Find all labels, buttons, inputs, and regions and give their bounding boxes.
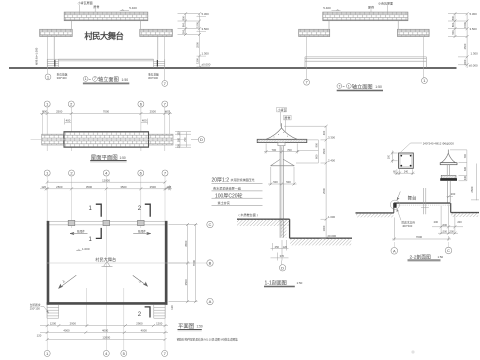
svg-text:2500: 2500 <box>470 186 474 192</box>
far right chain 2500 <box>471 164 479 201</box>
svg-text:4000: 4000 <box>63 329 70 333</box>
svg-text:±0.000: ±0.000 <box>202 62 211 66</box>
bottom dims 60/240 <box>394 169 415 175</box>
svg-text:700: 700 <box>464 154 467 159</box>
leader: 小青瓦屋面 <box>78 0 138 12</box>
svg-text:400: 400 <box>42 110 47 114</box>
svg-text:钢筋砼构件配筋见结施 M1:10见详图 M5做法详图集: 钢筋砼构件配筋见结施 M1:10见详图 M5做法详图集 <box>177 338 238 342</box>
column shaft (double line) <box>279 146 281 238</box>
svg-text:舞台: 舞台 <box>408 194 417 201</box>
svg-text:5.400: 5.400 <box>323 6 331 10</box>
parapet band right (side wing) <box>140 29 173 36</box>
svg-text:2500: 2500 <box>56 185 63 189</box>
svg-text:7000: 7000 <box>192 259 196 266</box>
ridge finial <box>281 123 283 128</box>
parapet band right wing <box>398 29 430 36</box>
stub columns joining roof band to wings <box>70 21 72 30</box>
svg-text:预埋件: 预埋件 <box>77 229 85 233</box>
svg-text:600: 600 <box>315 154 319 159</box>
entry arrow left (below beam) <box>70 232 88 234</box>
roof cap cone <box>266 128 297 139</box>
inside steps bottom-right <box>154 305 165 319</box>
dim 500/500 at collar <box>268 167 297 185</box>
svg-text:700: 700 <box>287 148 292 152</box>
grid bubble A <box>393 242 395 247</box>
section mark 2 (bottom) <box>138 307 150 318</box>
right dimension chain of roof plan <box>175 132 191 148</box>
column cross-section square <box>399 153 414 168</box>
svg-text:4000: 4000 <box>102 329 109 333</box>
overall top dimension 12000 <box>47 181 165 183</box>
svg-text:2500: 2500 <box>150 110 157 114</box>
top dimension line of roof plan <box>40 113 172 115</box>
svg-text:700: 700 <box>271 148 276 152</box>
svg-text:1500: 1500 <box>195 22 199 28</box>
stage platform (double top line) <box>59 58 154 60</box>
svg-text:3500: 3500 <box>120 185 127 189</box>
upper column stub <box>446 165 448 176</box>
right side dimensions of plan <box>169 225 198 302</box>
svg-text:2.400: 2.400 <box>328 159 335 163</box>
grid line 1 (left column axis) <box>47 37 49 74</box>
parapet band left (side wing) <box>40 29 72 36</box>
svg-text:120: 120 <box>37 334 42 338</box>
footing dims 250/120 <box>271 240 289 261</box>
roof band (hatched parapet, elevation 7-1) <box>323 12 408 21</box>
stage platform rectangle (rear view) <box>305 57 426 68</box>
svg-text:250: 250 <box>275 245 280 249</box>
right dimension chain of elevation 2 <box>448 14 467 68</box>
svg-text:200: 200 <box>451 192 456 196</box>
svg-text:500: 500 <box>273 180 278 184</box>
svg-text:500: 500 <box>178 137 181 142</box>
grid bubble C <box>207 221 213 227</box>
svg-text:600: 600 <box>464 166 467 171</box>
svg-text:5.400: 5.400 <box>129 6 137 10</box>
level flag 5.400 (left) <box>323 1 393 13</box>
svg-text:3500: 3500 <box>184 240 188 247</box>
grid bubble D with leader <box>191 139 198 141</box>
svg-text:800: 800 <box>181 22 185 27</box>
svg-text:1.300: 1.300 <box>202 52 210 56</box>
svg-text:400: 400 <box>322 130 326 135</box>
svg-text:500: 500 <box>286 180 291 184</box>
svg-text:300: 300 <box>464 175 467 180</box>
foundation note left column <box>57 73 159 80</box>
grid line 7 (left) <box>306 37 308 80</box>
top grid bubbles (floor plan) <box>44 170 168 176</box>
svg-text:M99.6±=1.000: M99.6±=1.000 <box>35 47 39 65</box>
svg-text:1:50: 1:50 <box>120 156 126 160</box>
svg-text:1200: 1200 <box>50 322 57 326</box>
section mark 1 (below beam) <box>89 228 102 243</box>
stage floor slab line <box>394 202 451 204</box>
svg-text:1.300: 1.300 <box>471 52 479 56</box>
boxed leader label 屋脊 <box>284 115 292 120</box>
svg-text:1:50: 1:50 <box>197 325 203 329</box>
svg-text:A: A <box>393 248 396 253</box>
svg-text:小青瓦屋面: 小青瓦屋面 <box>378 1 393 6</box>
svg-text:300*400: 300*400 <box>57 76 68 80</box>
svg-text:400: 400 <box>142 119 147 123</box>
svg-text:D: D <box>200 137 203 142</box>
svg-text:120: 120 <box>283 245 288 249</box>
svg-text:1:50: 1:50 <box>438 255 444 259</box>
parapet band left wing <box>299 29 330 36</box>
svg-text:3.500: 3.500 <box>470 27 478 31</box>
svg-text:±0.000: ±0.000 <box>469 64 478 68</box>
outer right dim chain with levels <box>284 126 326 238</box>
inner right dim chain (900/600) <box>296 140 318 163</box>
svg-text:7: 7 <box>338 84 340 88</box>
right wall <box>165 221 168 305</box>
svg-text:2900: 2900 <box>70 322 77 326</box>
svg-text:2500: 2500 <box>195 42 199 48</box>
svg-text:600: 600 <box>443 223 448 227</box>
dim 700/700 under cap <box>264 144 299 154</box>
svg-text:300*400: 300*400 <box>148 76 159 80</box>
svg-text:20厚1:2: 20厚1:2 <box>212 177 230 183</box>
stub columns joining band to wings <box>328 21 330 30</box>
cap finial <box>447 150 449 155</box>
left dim 100 <box>391 151 398 164</box>
grid bubble 7 <box>304 79 310 85</box>
svg-text:村民大舞台: 村民大舞台 <box>95 256 116 263</box>
svg-text:7000: 7000 <box>103 110 110 114</box>
horizontal grid line B through plan <box>46 262 207 264</box>
grade line (+-0.000) with earth hatch <box>290 237 352 239</box>
svg-text:500: 500 <box>181 29 185 34</box>
stage front edge beam (solid) with detail circle <box>393 203 396 208</box>
roof band cut (hatched) <box>441 175 456 178</box>
roof band (top hatched parapet, elevation 1-7) <box>64 12 148 21</box>
svg-text:500: 500 <box>451 30 455 35</box>
svg-text:C: C <box>447 248 450 253</box>
grid line 7 (right column axis) <box>164 37 166 81</box>
svg-text:轴立面图: 轴立面图 <box>98 75 119 83</box>
right steps block <box>154 59 165 68</box>
grid bubble 1 <box>422 78 428 84</box>
svg-text:青水泥浆结合层一遍: 青水泥浆结合层一遍 <box>213 185 241 190</box>
svg-text:200: 200 <box>167 185 171 190</box>
faint print artifact <box>411 350 414 353</box>
grid bubbles row (roof plan) <box>44 101 168 107</box>
bottom wall <box>47 302 168 305</box>
ground line (shared grade line across both elevations) <box>9 67 457 69</box>
sub dimension 400 left <box>65 122 72 124</box>
svg-text:5.300: 5.300 <box>202 12 210 16</box>
svg-text:2500: 2500 <box>56 110 63 114</box>
leader + note 防腐木龙骨 <box>397 209 401 221</box>
svg-text:屋脊: 屋脊 <box>284 115 290 120</box>
svg-text:2500: 2500 <box>322 188 326 194</box>
svg-text:3500: 3500 <box>86 185 93 189</box>
svg-text:D: D <box>281 265 284 270</box>
svg-text:100: 100 <box>178 131 181 136</box>
svg-text:1200: 1200 <box>156 322 163 326</box>
svg-text:800: 800 <box>181 15 185 20</box>
svg-text:120: 120 <box>41 185 46 189</box>
stage ground (1.000 level) with earth hatch <box>237 218 290 220</box>
grid line 1 (right) <box>423 37 425 78</box>
svg-text:200: 200 <box>434 220 439 224</box>
svg-text:平面图: 平面图 <box>178 322 194 330</box>
bottom dimension row 4000/4000/4000 <box>40 331 168 333</box>
svg-text:2900: 2900 <box>136 322 143 326</box>
lower column <box>446 181 448 203</box>
level flag 1.000 <box>76 247 90 251</box>
svg-text:1: 1 <box>348 84 350 88</box>
svg-text:村民大舞台: 村民大舞台 <box>84 31 124 41</box>
svg-text:台阶踏步: 台阶踏步 <box>30 303 41 307</box>
svg-text:小青瓦屋面: 小青瓦屋面 <box>78 0 93 5</box>
top beam (double line) <box>47 220 168 222</box>
roof outer strip (hatched) <box>42 134 173 145</box>
drawing title 7-1轴立面图 <box>337 82 383 91</box>
pedestal under slab <box>278 143 285 146</box>
bottom overall dimension 12000 <box>47 339 165 341</box>
right dimension chain of elevation 1 <box>178 14 200 68</box>
left outside grade line <box>356 212 394 214</box>
svg-text:700: 700 <box>184 137 187 142</box>
cap slab (hatched) <box>257 139 307 142</box>
bottom dimension row 1200/2900/2900/1200 <box>40 325 168 327</box>
right chain at cap <box>450 150 467 181</box>
cap cone <box>441 153 455 162</box>
svg-text:1:50: 1:50 <box>375 85 382 89</box>
svg-text:2500: 2500 <box>150 185 157 189</box>
svg-text:B: B <box>209 261 212 266</box>
diagonal arrow bottom-left (up direction) <box>59 275 77 288</box>
grid bubble A <box>207 298 213 304</box>
grid bubble C <box>448 242 450 247</box>
svg-text:7: 7 <box>94 77 96 81</box>
svg-text:±0.000: ±0.000 <box>328 234 337 238</box>
svg-text:100: 100 <box>178 144 181 149</box>
svg-text:防腐木龙骨: 防腐木龙骨 <box>402 220 416 224</box>
sub dimension 400 right <box>141 122 148 124</box>
columns on beam <box>68 220 144 225</box>
grid bubble 7 <box>162 81 168 87</box>
bottom grid bubbles <box>44 350 168 356</box>
svg-text:( 木质舞台面 ): ( 木质舞台面 ) <box>239 212 258 217</box>
section mark 1 (top) <box>89 204 102 217</box>
svg-text:250*150: 250*150 <box>30 307 41 311</box>
svg-text:屋脊: 屋脊 <box>93 4 99 9</box>
svg-text:A: A <box>209 299 212 304</box>
svg-text:轴立面图: 轴立面图 <box>352 82 373 90</box>
mid support post <box>423 188 425 214</box>
svg-text:4000: 4000 <box>141 329 148 333</box>
left wall <box>47 221 50 305</box>
svg-text:1000: 1000 <box>463 59 467 65</box>
svg-text:1500: 1500 <box>322 148 326 154</box>
grid extension lines <box>43 107 170 151</box>
grid bubble D below section <box>281 261 283 265</box>
bottom-right dim cluster <box>432 205 463 235</box>
svg-text:屋脊: 屋脊 <box>368 5 374 10</box>
svg-text:1300: 1300 <box>195 58 199 64</box>
leader arrow from above to edge <box>397 192 401 201</box>
svg-text:200: 200 <box>457 220 462 224</box>
collar flare <box>271 159 294 165</box>
drawing title 1-7轴立面图 <box>83 75 129 84</box>
svg-text:400: 400 <box>66 119 71 123</box>
right step down and grade <box>450 203 452 213</box>
svg-text:2-2剖面图: 2-2剖面图 <box>410 253 432 260</box>
diagonal arrow bottom-right (up direction) <box>133 275 148 286</box>
right column edge <box>157 37 159 60</box>
svg-text:800: 800 <box>451 15 455 20</box>
left column edge <box>53 37 55 60</box>
top dimension row 400/2500/3500/3500/2500/400 <box>40 188 172 190</box>
svg-text:小青瓦: 小青瓦 <box>278 107 287 112</box>
beam (solid) <box>440 178 457 181</box>
svg-text:1-1剖面图: 1-1剖面图 <box>265 280 287 287</box>
svg-text:800: 800 <box>451 22 455 27</box>
section mark 2 (top) <box>138 204 150 217</box>
svg-text:C: C <box>209 222 212 227</box>
svg-text:1:50: 1:50 <box>122 78 129 82</box>
svg-text:7000: 7000 <box>416 235 423 239</box>
svg-text:1:50: 1:50 <box>297 281 303 285</box>
svg-text:预埋件: 预埋件 <box>138 229 146 233</box>
svg-text:3.500: 3.500 <box>202 27 210 31</box>
cap slab bar <box>440 163 457 165</box>
rebar dots <box>400 155 411 167</box>
svg-text:1000: 1000 <box>322 225 326 231</box>
roof centre block (hatched, heavier border) <box>64 132 149 148</box>
entry arrow right (below beam) <box>133 232 151 234</box>
svg-text:240: 240 <box>404 170 409 173</box>
boxed leader label 小青瓦 <box>277 107 287 112</box>
svg-text:素土夯实: 素土夯实 <box>218 200 230 205</box>
outside steps bottom-left <box>47 305 59 319</box>
grid bubble 1 <box>45 74 51 80</box>
svg-text:3500: 3500 <box>184 279 188 286</box>
buried column hatch <box>281 219 286 238</box>
left steps block <box>47 59 58 68</box>
svg-text:12000: 12000 <box>102 336 110 340</box>
svg-text:240*240 4Φ12 Φ6@200: 240*240 4Φ12 Φ6@200 <box>423 141 455 145</box>
bottom dim 7000 <box>392 218 451 241</box>
svg-text:200: 200 <box>450 229 455 233</box>
svg-text:400*400: 400*400 <box>402 224 413 228</box>
svg-text:1.000: 1.000 <box>82 247 90 251</box>
svg-text:100: 100 <box>387 154 390 159</box>
svg-text:1: 1 <box>85 77 87 81</box>
svg-text:200: 200 <box>443 229 448 233</box>
grid vertical lines <box>47 176 165 350</box>
svg-text:5.300: 5.300 <box>470 12 478 16</box>
svg-text:400: 400 <box>165 110 170 114</box>
svg-text:370: 370 <box>280 254 285 258</box>
svg-text:3.300: 3.300 <box>328 136 335 140</box>
roof centreline <box>31 139 185 141</box>
steps note 台阶踏步 250*150 with leader <box>30 303 41 311</box>
grid bubble B <box>207 260 213 266</box>
stage front vertical <box>393 203 395 213</box>
svg-text:2500: 2500 <box>463 43 467 49</box>
svg-text:900: 900 <box>315 142 319 147</box>
svg-text:12000: 12000 <box>102 178 110 182</box>
svg-text:1.000: 1.000 <box>328 215 335 219</box>
svg-text:1500: 1500 <box>463 22 467 28</box>
step down to grade <box>289 219 291 238</box>
svg-text:水泥砂浆抹面压光: 水泥砂浆抹面压光 <box>231 177 255 182</box>
svg-text:120: 120 <box>170 305 174 310</box>
